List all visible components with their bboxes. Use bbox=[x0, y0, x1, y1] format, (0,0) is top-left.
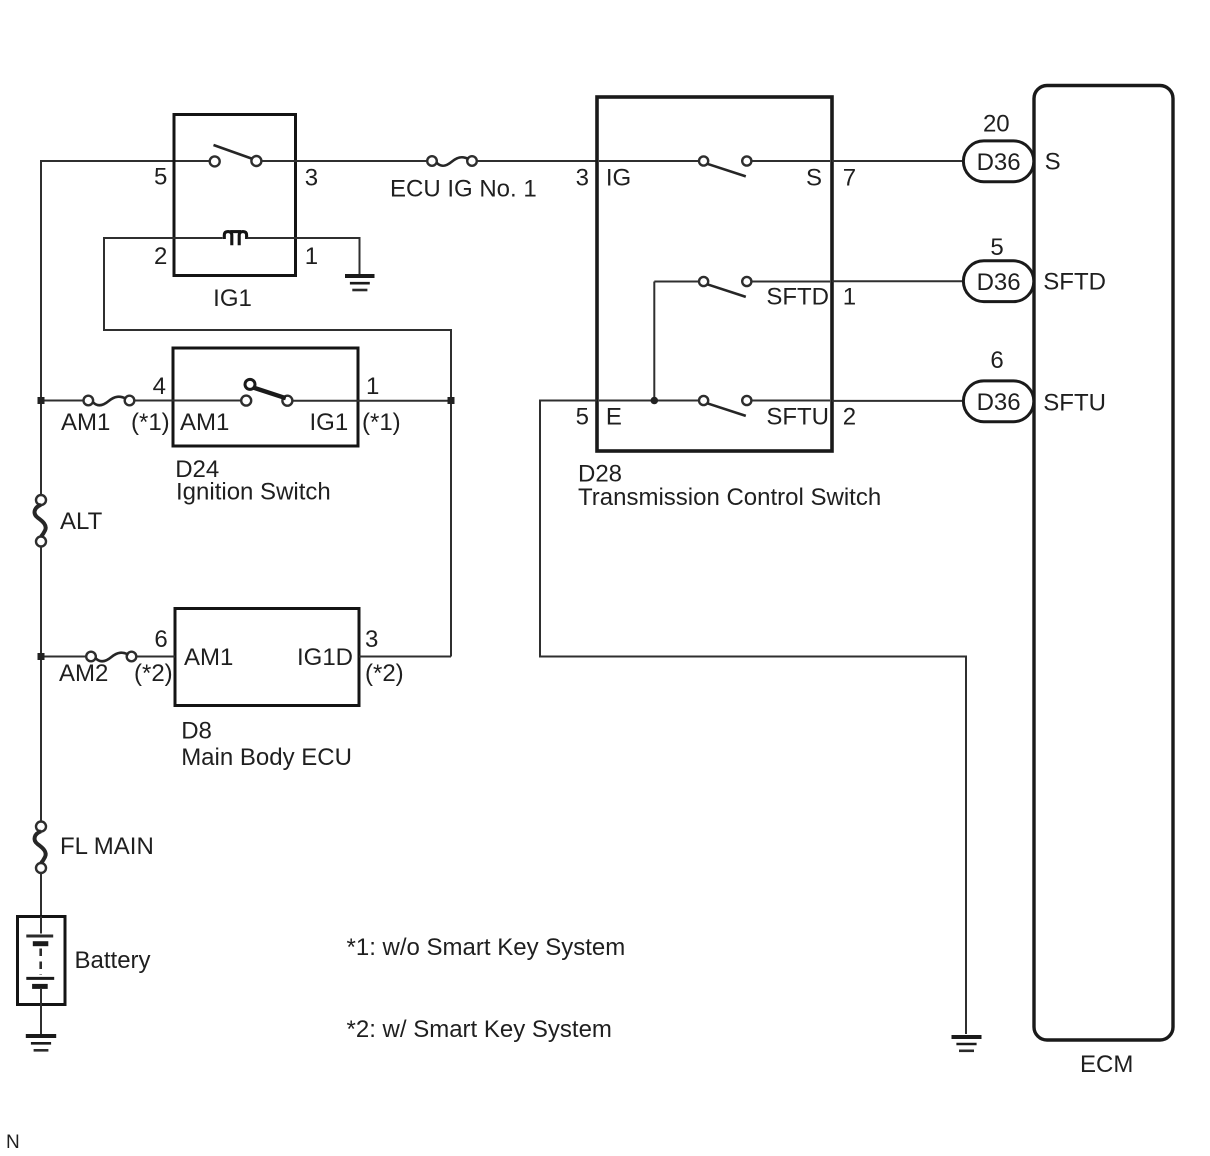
svg-text:7: 7 bbox=[843, 165, 856, 192]
svg-text:IG: IG bbox=[606, 165, 631, 192]
svg-text:(*2): (*2) bbox=[134, 660, 173, 687]
svg-text:Battery: Battery bbox=[75, 947, 151, 974]
connector D36 pin 5 (SFTD) bbox=[963, 261, 1033, 302]
svg-text:(*1): (*1) bbox=[362, 409, 401, 436]
svg-text:D36: D36 bbox=[977, 149, 1021, 176]
switch contacts in IG1 bbox=[210, 145, 262, 166]
svg-text:AM1: AM1 bbox=[180, 409, 229, 436]
svg-text:5: 5 bbox=[576, 404, 589, 431]
pin 6 label bbox=[990, 347, 1003, 374]
svg-text:3: 3 bbox=[305, 165, 318, 192]
note (*1) right bbox=[362, 409, 401, 436]
switch SFTD in D28 bbox=[699, 277, 751, 297]
note (*2) left bbox=[134, 660, 173, 687]
junction dot (D24 pin1 / IG1 pin2 column) bbox=[448, 397, 455, 404]
label Main Body ECU bbox=[181, 744, 352, 771]
wire: IG1 pin 3 to ECU IG fuse bbox=[262, 160, 428, 162]
junction dot (E node) bbox=[651, 397, 659, 405]
wire: battery to ground bbox=[40, 1005, 42, 1035]
svg-text:SFTU: SFTU bbox=[1043, 390, 1106, 417]
svg-text:ECM: ECM bbox=[1080, 1051, 1133, 1078]
pin 3 label (D8) bbox=[365, 626, 378, 653]
connector D36 pin 20 (S) bbox=[963, 141, 1033, 182]
svg-text:4: 4 bbox=[153, 373, 166, 400]
wire: IG1 coil left lead bbox=[174, 237, 223, 239]
svg-text:IG1: IG1 bbox=[310, 409, 349, 436]
label Transmission Control Switch bbox=[578, 484, 881, 511]
ground (E wire, below ECM) bbox=[952, 1037, 982, 1051]
svg-text:3: 3 bbox=[576, 165, 589, 192]
pin 1 label (D24) bbox=[366, 373, 379, 400]
label IG1 bbox=[213, 285, 252, 312]
svg-text:SFTU: SFTU bbox=[766, 404, 829, 431]
svg-text:1: 1 bbox=[366, 373, 379, 400]
pin 1 label (D28) bbox=[843, 284, 856, 311]
label FL MAIN bbox=[60, 833, 154, 860]
svg-text:ECU IG No. 1: ECU IG No. 1 bbox=[390, 176, 537, 203]
svg-text:(*2): (*2) bbox=[365, 660, 404, 687]
svg-text:5: 5 bbox=[990, 234, 1003, 261]
svg-text:2: 2 bbox=[154, 243, 167, 270]
svg-text:S: S bbox=[806, 165, 822, 192]
pin 6 label (D8) bbox=[154, 626, 167, 653]
wire: AM2 fuse to D8 pin 6 bbox=[136, 656, 175, 658]
wire: bus between ALT and FL MAIN bbox=[40, 547, 42, 822]
svg-text:ALT: ALT bbox=[60, 508, 103, 535]
terminal label AM1 (inside D24) bbox=[180, 409, 229, 436]
pin 4 label (D24) bbox=[153, 373, 166, 400]
transmission control switch D28 box bbox=[597, 97, 832, 451]
wire: D28 pin 2 to D36 bbox=[832, 400, 963, 402]
terminal label IG1D (inside D8) bbox=[297, 644, 353, 671]
terminal label S (inside D28) bbox=[806, 165, 822, 192]
fusible link FL MAIN bbox=[35, 822, 46, 874]
label D24 bbox=[175, 456, 219, 483]
pin 20 label bbox=[983, 111, 1010, 138]
switch S (IG-S) in D28 bbox=[699, 156, 751, 176]
switch SFTU in D28 bbox=[699, 396, 751, 416]
connector D36 pin 6 (SFTU) bbox=[963, 381, 1033, 422]
wire: SFTD row to pin 1 bbox=[751, 281, 830, 283]
fuse AM2 bbox=[86, 652, 136, 662]
ground (battery) bbox=[26, 1036, 56, 1050]
battery bbox=[18, 917, 66, 1005]
pin 3 label (IG1) bbox=[305, 165, 318, 192]
label AM2 (fuse name) bbox=[59, 660, 108, 687]
wire: D28 IG row to pin 7 bbox=[751, 160, 830, 162]
label D8 bbox=[181, 718, 212, 745]
svg-text:AM1: AM1 bbox=[61, 409, 110, 436]
svg-text:Main Body ECU: Main Body ECU bbox=[181, 744, 352, 771]
terminal label IG (inside D28) bbox=[606, 165, 631, 192]
svg-text:Ignition Switch: Ignition Switch bbox=[176, 479, 331, 506]
wire: fuse to D28 pin 3 bbox=[477, 160, 597, 162]
svg-text:6: 6 bbox=[990, 347, 1003, 374]
note *1 bbox=[347, 934, 626, 961]
wire: D28 pin 1 to D36 bbox=[832, 280, 963, 282]
label AM1 (fuse name) bbox=[61, 409, 110, 436]
label ECU IG No. 1 bbox=[390, 176, 537, 203]
wire: D24 pin 1 to junction column bbox=[292, 400, 451, 402]
ignition switch D24 box bbox=[173, 348, 358, 446]
ECM box bbox=[1034, 86, 1173, 1041]
wire: SFTU row to pin 2 bbox=[751, 400, 830, 402]
svg-text:2: 2 bbox=[843, 404, 856, 431]
pin 2 label (IG1) bbox=[154, 243, 167, 270]
relay IG1 box bbox=[174, 115, 296, 276]
junction dot (bus / D8 feed) bbox=[38, 653, 45, 660]
fusible link ALT bbox=[35, 495, 46, 547]
note *2 bbox=[347, 1016, 612, 1043]
pin 5 label bbox=[990, 234, 1003, 261]
wire: AM1 fuse to ignition switch contact bbox=[134, 400, 241, 402]
svg-text:SFTD: SFTD bbox=[766, 284, 829, 311]
svg-text:E: E bbox=[606, 404, 622, 431]
node SFTU (ECM terminal) bbox=[1043, 390, 1106, 417]
note (*2) right bbox=[365, 660, 404, 687]
label ECM bbox=[1080, 1051, 1133, 1078]
coil (IG1 relay coil) bbox=[224, 232, 246, 246]
label D28 bbox=[578, 460, 622, 487]
label ALT bbox=[60, 508, 103, 535]
svg-text:SFTD: SFTD bbox=[1043, 269, 1106, 296]
svg-text:AM2: AM2 bbox=[59, 660, 108, 687]
main body ECU D8 box bbox=[175, 609, 359, 706]
wire: D8 pin 3 to junction column bbox=[359, 656, 451, 658]
pin 5 label (D28) bbox=[576, 404, 589, 431]
pin 3 label (D28) bbox=[576, 165, 589, 192]
svg-text:IG1: IG1 bbox=[213, 285, 252, 312]
wire: bus to AM2 fuse bbox=[41, 656, 86, 658]
svg-text:*1: w/o Smart Key System: *1: w/o Smart Key System bbox=[347, 934, 626, 961]
svg-text:FL MAIN: FL MAIN bbox=[60, 833, 154, 860]
switch contacts in D24 (key switch) bbox=[241, 379, 292, 405]
svg-text:3: 3 bbox=[365, 626, 378, 653]
svg-text:1: 1 bbox=[843, 284, 856, 311]
node SFTD (ECM terminal) bbox=[1043, 269, 1106, 296]
svg-text:*2: w/ Smart Key System: *2: w/ Smart Key System bbox=[347, 1016, 612, 1043]
wire: D28 IG row (pin 3 side) bbox=[599, 160, 699, 162]
svg-text:1: 1 bbox=[305, 243, 318, 270]
svg-text:AM1: AM1 bbox=[184, 644, 233, 671]
svg-text:D36: D36 bbox=[977, 389, 1021, 416]
wire: SFTD branch vertical from E node bbox=[653, 282, 655, 401]
terminal label SFTD (inside D28) bbox=[766, 284, 829, 311]
wire: IG1 pin 2 loop down to D24/D8 column bbox=[104, 238, 451, 657]
note N (page mark) bbox=[6, 1132, 20, 1153]
wire: battery bus top (from battery column up and across to IG1 pin 5) bbox=[41, 161, 210, 495]
svg-text:D8: D8 bbox=[181, 718, 212, 745]
wire: bus to AM1 fuse bbox=[41, 400, 84, 402]
svg-text:20: 20 bbox=[983, 111, 1010, 138]
label Battery bbox=[75, 947, 151, 974]
wire: D28 pin 7 to D36 bbox=[832, 160, 963, 162]
note (*1) left bbox=[131, 409, 170, 436]
svg-text:S: S bbox=[1045, 149, 1061, 176]
svg-text:(*1): (*1) bbox=[131, 409, 170, 436]
ground (IG1 pin 1) bbox=[345, 276, 375, 290]
wire: D28 E row (pin 5 side) bbox=[599, 400, 699, 402]
fuse ECU IG No. 1 bbox=[427, 156, 477, 166]
terminal label SFTU (inside D28) bbox=[766, 404, 829, 431]
wire: SFTD row left lead bbox=[654, 281, 699, 283]
terminal label IG1 (inside D24) bbox=[310, 409, 349, 436]
svg-text:6: 6 bbox=[154, 626, 167, 653]
node S (ECM terminal) bbox=[1045, 149, 1061, 176]
pin 5 label (IG1) bbox=[154, 164, 167, 191]
pin 7 label (D28) bbox=[843, 165, 856, 192]
svg-text:Transmission Control Switch: Transmission Control Switch bbox=[578, 484, 881, 511]
wire: D28 pin 5 (E) to ECM-side ground bbox=[540, 401, 966, 1035]
svg-text:N: N bbox=[6, 1132, 20, 1153]
wire: IG1 pin 1 to ground bbox=[247, 238, 359, 274]
label Ignition Switch bbox=[176, 479, 331, 506]
wire: FL MAIN to battery bbox=[40, 873, 42, 916]
pin 2 label (D28) bbox=[843, 404, 856, 431]
pin 1 label (IG1) bbox=[305, 243, 318, 270]
svg-text:IG1D: IG1D bbox=[297, 644, 353, 671]
svg-text:D36: D36 bbox=[977, 269, 1021, 296]
terminal label AM1 (inside D8) bbox=[184, 644, 233, 671]
fuse AM1 bbox=[84, 396, 135, 406]
svg-text:5: 5 bbox=[154, 164, 167, 191]
terminal label E (inside D28) bbox=[606, 404, 622, 431]
junction dot (bus / D24 feed) bbox=[38, 397, 45, 404]
